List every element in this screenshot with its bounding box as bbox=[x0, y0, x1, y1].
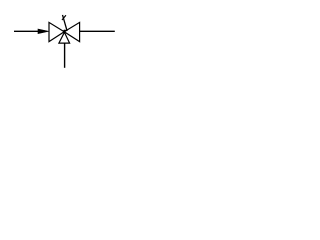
wire left (inlet) bbox=[14, 30, 39, 32]
wire right (outlet) bbox=[80, 30, 115, 32]
valve body right triangle bbox=[64, 22, 79, 41]
bottom port open triangle bbox=[59, 32, 70, 43]
junction node bbox=[63, 30, 66, 32]
adjustment crossbar bbox=[62, 15, 66, 20]
valve body left triangle bbox=[49, 22, 64, 41]
arrowhead flow direction bbox=[38, 29, 49, 34]
bottom stem wire bbox=[64, 43, 66, 68]
adjustment stem bbox=[63, 15, 68, 31]
